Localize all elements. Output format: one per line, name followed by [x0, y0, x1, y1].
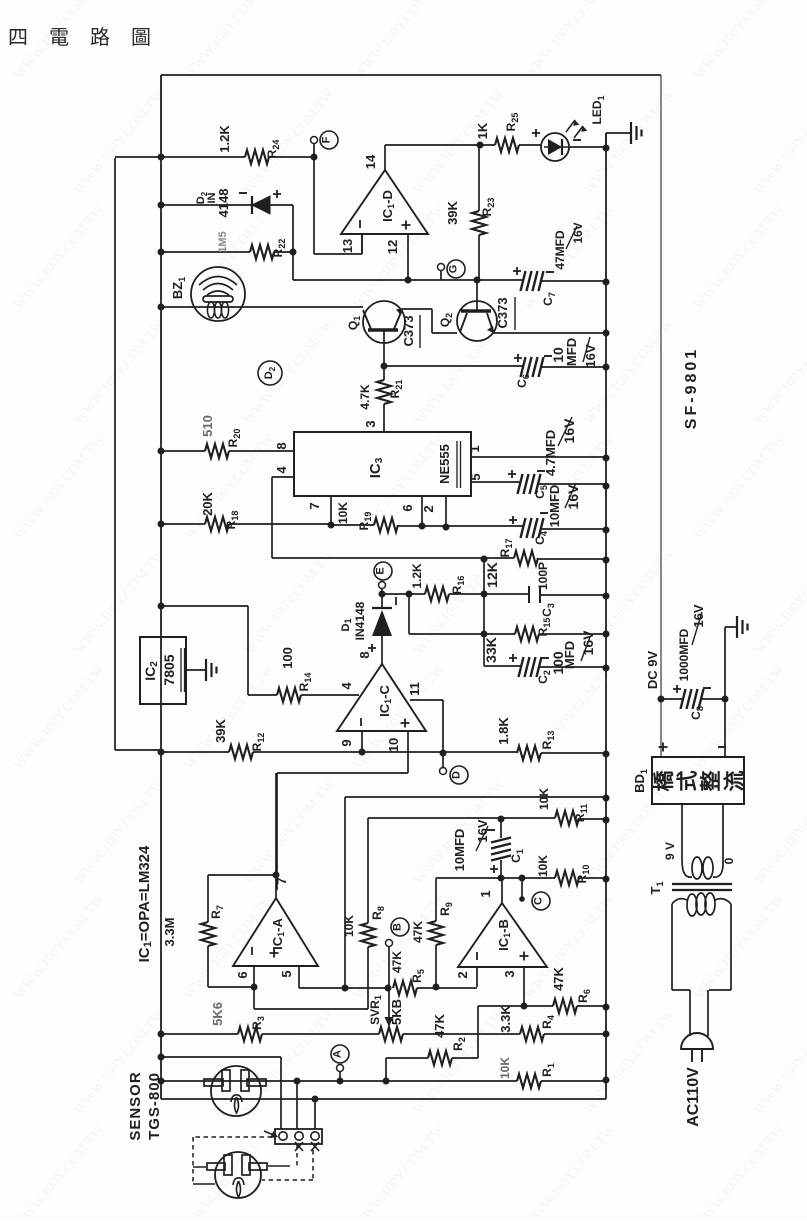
junction	[433, 984, 440, 991]
junction	[498, 875, 505, 882]
svg-text:NE555: NE555	[437, 444, 452, 484]
resistor R10 10K	[555, 871, 579, 885]
junction	[603, 455, 610, 462]
wire pin6 down to R8 line	[254, 987, 368, 1009]
buzzer BZ1	[191, 267, 245, 321]
junction	[158, 603, 165, 610]
svg-text:6: 6	[235, 971, 250, 978]
LED LED1	[541, 133, 569, 161]
resistor R21 4.7K	[383, 366, 385, 432]
junction	[603, 795, 610, 802]
junction	[158, 1078, 165, 1085]
transformer T1	[682, 804, 723, 864]
svg-text:10K: 10K	[536, 855, 550, 877]
svg-text:11: 11	[407, 682, 422, 696]
resistor R19 10K	[331, 525, 524, 526]
junction	[443, 524, 450, 531]
resistor R22	[161, 251, 293, 253]
capacitor C6 10MFD	[384, 366, 606, 367]
svg-text:SF-9801: SF-9801	[683, 347, 700, 429]
capacitor C1 10MFD	[500, 819, 502, 878]
svg-text:C: C	[533, 897, 545, 905]
capacitor C8 1000MFD	[661, 698, 725, 700]
junction	[481, 556, 488, 563]
resistor R3 5K6 / potentiometer SVR1 / resistor R4 3.3K line	[161, 1033, 606, 1035]
wire primary loop	[672, 899, 731, 904]
junction	[603, 330, 610, 337]
resistor R12 39K	[161, 751, 362, 753]
resistor R18 20K	[161, 523, 331, 525]
svg-text:B: B	[392, 923, 404, 931]
wire left border rail	[160, 75, 162, 1099]
wire output rail to LED	[385, 144, 541, 146]
pin 1 wire of IC3	[471, 456, 606, 458]
svg-text:D: D	[451, 771, 463, 779]
node A	[331, 1045, 349, 1063]
junction	[158, 1031, 165, 1038]
svg-text:1: 1	[467, 445, 482, 452]
junction	[158, 249, 165, 256]
svg-text:33K: 33K	[483, 637, 499, 663]
svg-text:47MFD: 47MFD	[553, 230, 567, 270]
svg-text:3: 3	[363, 420, 378, 427]
connector socket	[275, 1129, 322, 1144]
diode D1 IN4148	[381, 594, 383, 608]
svg-text:0: 0	[722, 857, 736, 864]
svg-text:流: 流	[723, 771, 747, 792]
junction	[603, 817, 610, 824]
node B	[391, 918, 409, 936]
node D2 test point	[258, 361, 282, 385]
wire Q2 emitter to bus	[493, 332, 606, 334]
junction	[328, 522, 335, 529]
junction	[158, 521, 165, 528]
wire R6 corner down to R2	[477, 1006, 479, 1058]
svg-text:2: 2	[421, 505, 436, 512]
junction	[273, 872, 280, 879]
wire R22/D2 node down and right to IC1-D pin 12 line	[293, 252, 524, 280]
junction	[603, 1077, 610, 1084]
resistor R5 47K	[417, 987, 477, 989]
resistor R13 1.8K	[541, 752, 606, 754]
svg-text:10MFD: 10MFD	[547, 485, 562, 528]
junction	[603, 1031, 610, 1038]
svg-text:式: 式	[677, 771, 700, 792]
svg-text:47K: 47K	[432, 1013, 447, 1037]
pin 13 stub	[361, 234, 363, 254]
junction	[158, 202, 165, 209]
junction	[477, 142, 484, 149]
svg-text:5K6: 5K6	[210, 1002, 225, 1026]
pin 6 stub	[253, 966, 255, 987]
pin 1 output stub	[501, 878, 503, 903]
wire pin9 line to R13	[362, 751, 517, 753]
svg-text:100P: 100P	[536, 562, 550, 590]
wire node C stub	[521, 878, 523, 899]
wire right border / DC9V feed	[660, 75, 662, 757]
svg-text:47K: 47K	[411, 921, 425, 943]
svg-text:F: F	[321, 136, 333, 143]
svg-text:DC 9V: DC 9V	[645, 651, 660, 690]
capacitor C2 100MFD	[484, 666, 606, 667]
resistor R24	[115, 156, 314, 158]
svg-text:橋: 橋	[652, 770, 676, 792]
svg-text:E: E	[375, 567, 387, 574]
svg-text:3.3K: 3.3K	[498, 1005, 513, 1033]
IC IC3 NE555 box	[294, 432, 471, 496]
op-amp U IC1-D	[341, 170, 428, 234]
junction	[603, 483, 610, 490]
svg-text:IN4148: IN4148	[353, 601, 367, 640]
pin 4 wire of IC3	[272, 477, 294, 558]
gas sensor TGS-800	[211, 1066, 261, 1116]
junction	[158, 448, 165, 455]
transistor Q1 C373	[363, 301, 405, 343]
gas sensor spare TGS-800	[215, 1152, 261, 1198]
svg-text:4: 4	[274, 466, 289, 474]
pin 5 wire of IC3 with capacitor C5 4.7MFD	[471, 482, 606, 484]
svg-text:7: 7	[307, 502, 322, 509]
svg-text:9 V: 9 V	[663, 842, 677, 860]
junction	[603, 593, 610, 600]
op-amp U IC1-A	[233, 898, 318, 966]
resistor R25	[495, 138, 519, 152]
pin 7 output wire	[275, 773, 277, 898]
svg-text:100: 100	[280, 647, 295, 669]
svg-text:39K: 39K	[213, 718, 228, 742]
svg-text:TGS-800: TGS-800	[146, 1072, 163, 1140]
ground near C8	[736, 616, 738, 638]
svg-text:G: G	[448, 265, 460, 274]
junction	[722, 696, 729, 703]
junction	[603, 1004, 610, 1011]
bridge rectifier BD1	[652, 757, 744, 804]
wire R7 bottom to pin6	[208, 986, 254, 988]
wire D2 cathode down to R22 node	[292, 205, 294, 252]
wire secondary left rail	[115, 158, 161, 750]
junction	[311, 154, 318, 161]
junction	[385, 985, 392, 992]
pin 3 stub	[523, 967, 525, 1006]
ground top right	[630, 122, 632, 144]
svg-text:10K: 10K	[537, 788, 551, 810]
junction	[383, 1078, 390, 1085]
svg-text:1K: 1K	[475, 122, 490, 139]
junction	[498, 816, 505, 823]
wire line C	[436, 877, 606, 879]
junction	[337, 1078, 344, 1085]
junction	[521, 1003, 528, 1010]
IC IC2 7805 box	[140, 637, 186, 704]
junction	[419, 523, 426, 530]
junction	[405, 277, 412, 284]
wire BZ1 to Q1 collector	[161, 306, 363, 308]
junction	[440, 750, 447, 757]
svg-text:1M5: 1M5	[217, 231, 229, 252]
svg-text:10K: 10K	[336, 502, 350, 524]
svg-text:5: 5	[468, 473, 483, 480]
capacitor C4 10MFD	[521, 518, 544, 538]
node D	[450, 766, 468, 784]
pin 12 stub	[407, 234, 409, 280]
svg-text:5KB: 5KB	[389, 999, 404, 1025]
svg-text:C373: C373	[401, 315, 416, 346]
wire node E stub	[381, 589, 383, 594]
junction	[603, 876, 610, 883]
svg-text:10: 10	[386, 738, 401, 752]
resistor R7 3.3M feedback	[208, 875, 276, 987]
svg-text:39K: 39K	[445, 200, 460, 224]
junction	[359, 749, 366, 756]
junction	[294, 1078, 301, 1085]
svg-text:4.7MFD: 4.7MFD	[543, 430, 558, 476]
pin 6 stub	[421, 497, 423, 526]
capacitor C3 100P	[529, 586, 540, 603]
plug AC110V	[681, 1033, 713, 1049]
junction	[603, 145, 610, 152]
svg-text:510: 510	[200, 415, 215, 437]
junction	[603, 364, 610, 371]
svg-text:四電路圖: 四電路圖	[8, 26, 172, 49]
wire 33K branch vertical	[483, 559, 485, 666]
svg-text:20K: 20K	[200, 491, 215, 515]
svg-text:MFD: MFD	[564, 338, 579, 366]
junction	[379, 591, 386, 598]
junction	[381, 363, 388, 370]
node E	[374, 562, 392, 580]
wire connector pin2 to sensor line	[296, 1081, 298, 1129]
wire main right bus	[605, 133, 607, 1099]
resistor R1 10K sensor line	[161, 1080, 606, 1082]
wire R16 line to R15 line	[408, 594, 410, 634]
ground at IC2	[205, 659, 207, 681]
resistor R14 100	[248, 694, 359, 696]
junction	[603, 279, 610, 286]
svg-text:1.2K: 1.2K	[410, 563, 424, 589]
resistor R17 12K	[272, 558, 606, 559]
pin 11 stub	[410, 700, 443, 753]
svg-text:10K: 10K	[342, 915, 356, 937]
wire to sensor connector	[161, 1057, 281, 1129]
resistor R16 1.2K	[382, 593, 529, 595]
svg-text:3: 3	[502, 970, 517, 977]
pin 10 stub and feedback wire to IC1-A output	[277, 731, 408, 890]
svg-text:10MFD: 10MFD	[452, 829, 467, 872]
capacitor C7 47MFD	[521, 271, 544, 291]
svg-text:6: 6	[400, 504, 415, 511]
node C	[532, 892, 550, 910]
junction	[312, 1096, 319, 1103]
wire IC2 output line	[161, 606, 248, 695]
wire Q1 emitter to Q2	[402, 309, 457, 333]
junction	[158, 154, 165, 161]
svg-text:AC110V: AC110V	[685, 1067, 702, 1127]
junction	[658, 696, 665, 703]
wire LED to bus	[569, 146, 606, 148]
wire C8 minus to ground	[725, 627, 737, 757]
wire top border rail	[161, 74, 661, 76]
svg-text:C373: C373	[495, 297, 510, 328]
junction	[481, 591, 488, 598]
svg-text:9: 9	[339, 739, 354, 746]
wire line A	[345, 797, 606, 988]
junction	[251, 984, 258, 991]
pin 2 stub	[445, 497, 447, 527]
svg-text:1000MFD: 1000MFD	[677, 628, 691, 681]
node F	[320, 131, 338, 149]
svg-text:8: 8	[357, 651, 372, 658]
svg-text:1.2K: 1.2K	[217, 125, 232, 153]
svg-text:4.7K: 4.7K	[358, 384, 372, 410]
junction	[158, 749, 165, 756]
svg-text:整: 整	[699, 771, 723, 792]
pin 7 stub	[330, 497, 332, 525]
svg-text:A: A	[332, 1050, 344, 1058]
svg-text:4: 4	[339, 682, 354, 690]
op-amp U IC1-B	[458, 903, 547, 967]
svg-text:2: 2	[455, 971, 470, 978]
node G	[447, 260, 465, 278]
svg-text:12K: 12K	[484, 562, 500, 588]
pin 9 stub	[361, 731, 363, 752]
junction	[290, 249, 297, 256]
svg-text:SENSOR: SENSOR	[127, 1071, 144, 1140]
wire node F to IC1-D pin 13	[314, 144, 362, 254]
resistor R2 47K	[386, 1057, 478, 1059]
junction	[474, 277, 481, 284]
wire pin12 line right of C7	[540, 280, 606, 282]
resistor R11 10K with line B	[368, 818, 606, 819]
svg-text:47K: 47K	[551, 966, 566, 990]
svg-text:4148: 4148	[216, 189, 231, 218]
transistor Q2 C373	[457, 301, 497, 341]
wire connector pin3 to bottom rail	[314, 1099, 316, 1129]
svg-text:16V: 16V	[565, 484, 581, 510]
junction	[603, 631, 610, 638]
svg-text:12: 12	[385, 240, 400, 254]
resistor R15 33K	[409, 633, 606, 635]
wire node A stub	[339, 1072, 341, 1081]
junction	[158, 1054, 165, 1061]
resistor R6 47K	[478, 1005, 606, 1007]
pin 14 output wire	[384, 145, 386, 170]
svg-text:MFD: MFD	[562, 641, 577, 669]
wire pin5/pin2 line	[299, 966, 388, 988]
pin 2 stub	[476, 967, 478, 987]
resistor R23	[478, 145, 480, 280]
wire R2 to sensor line	[385, 1058, 387, 1081]
svg-text:13: 13	[340, 239, 355, 253]
junction	[603, 557, 610, 564]
wire node G stub	[440, 271, 442, 280]
svg-text:3.3M: 3.3M	[162, 918, 177, 947]
diode D2 IN4148	[161, 204, 252, 206]
junction	[519, 875, 526, 882]
junction	[158, 304, 165, 311]
svg-text:8: 8	[274, 442, 289, 449]
junction	[481, 631, 488, 638]
wire bus stub to ground	[606, 133, 630, 148]
svg-text:10K: 10K	[498, 1057, 512, 1079]
wire node D stub	[442, 753, 444, 767]
svg-text:7805: 7805	[161, 654, 177, 685]
junction	[406, 591, 413, 598]
svg-text:14: 14	[363, 154, 378, 169]
wire dashed spare-sensor hookup	[193, 1136, 272, 1138]
svg-text:5: 5	[279, 970, 294, 977]
junction	[603, 527, 610, 534]
resistor R8 10K vertical	[367, 818, 369, 1009]
junction	[342, 985, 349, 992]
junction	[603, 665, 610, 672]
wire bottom rail	[161, 1098, 606, 1100]
wire SVR1 wiper	[388, 947, 390, 1018]
resistor R20 510	[161, 450, 294, 452]
op-amp U IC1-C	[337, 664, 426, 731]
wire IC2 ground stub	[186, 669, 206, 671]
svg-text:47K: 47K	[390, 951, 404, 973]
junction	[603, 751, 610, 758]
svg-text:1: 1	[478, 890, 493, 897]
svg-text:1.8K: 1.8K	[496, 717, 511, 745]
resistor R9 47K vertical	[435, 878, 437, 987]
